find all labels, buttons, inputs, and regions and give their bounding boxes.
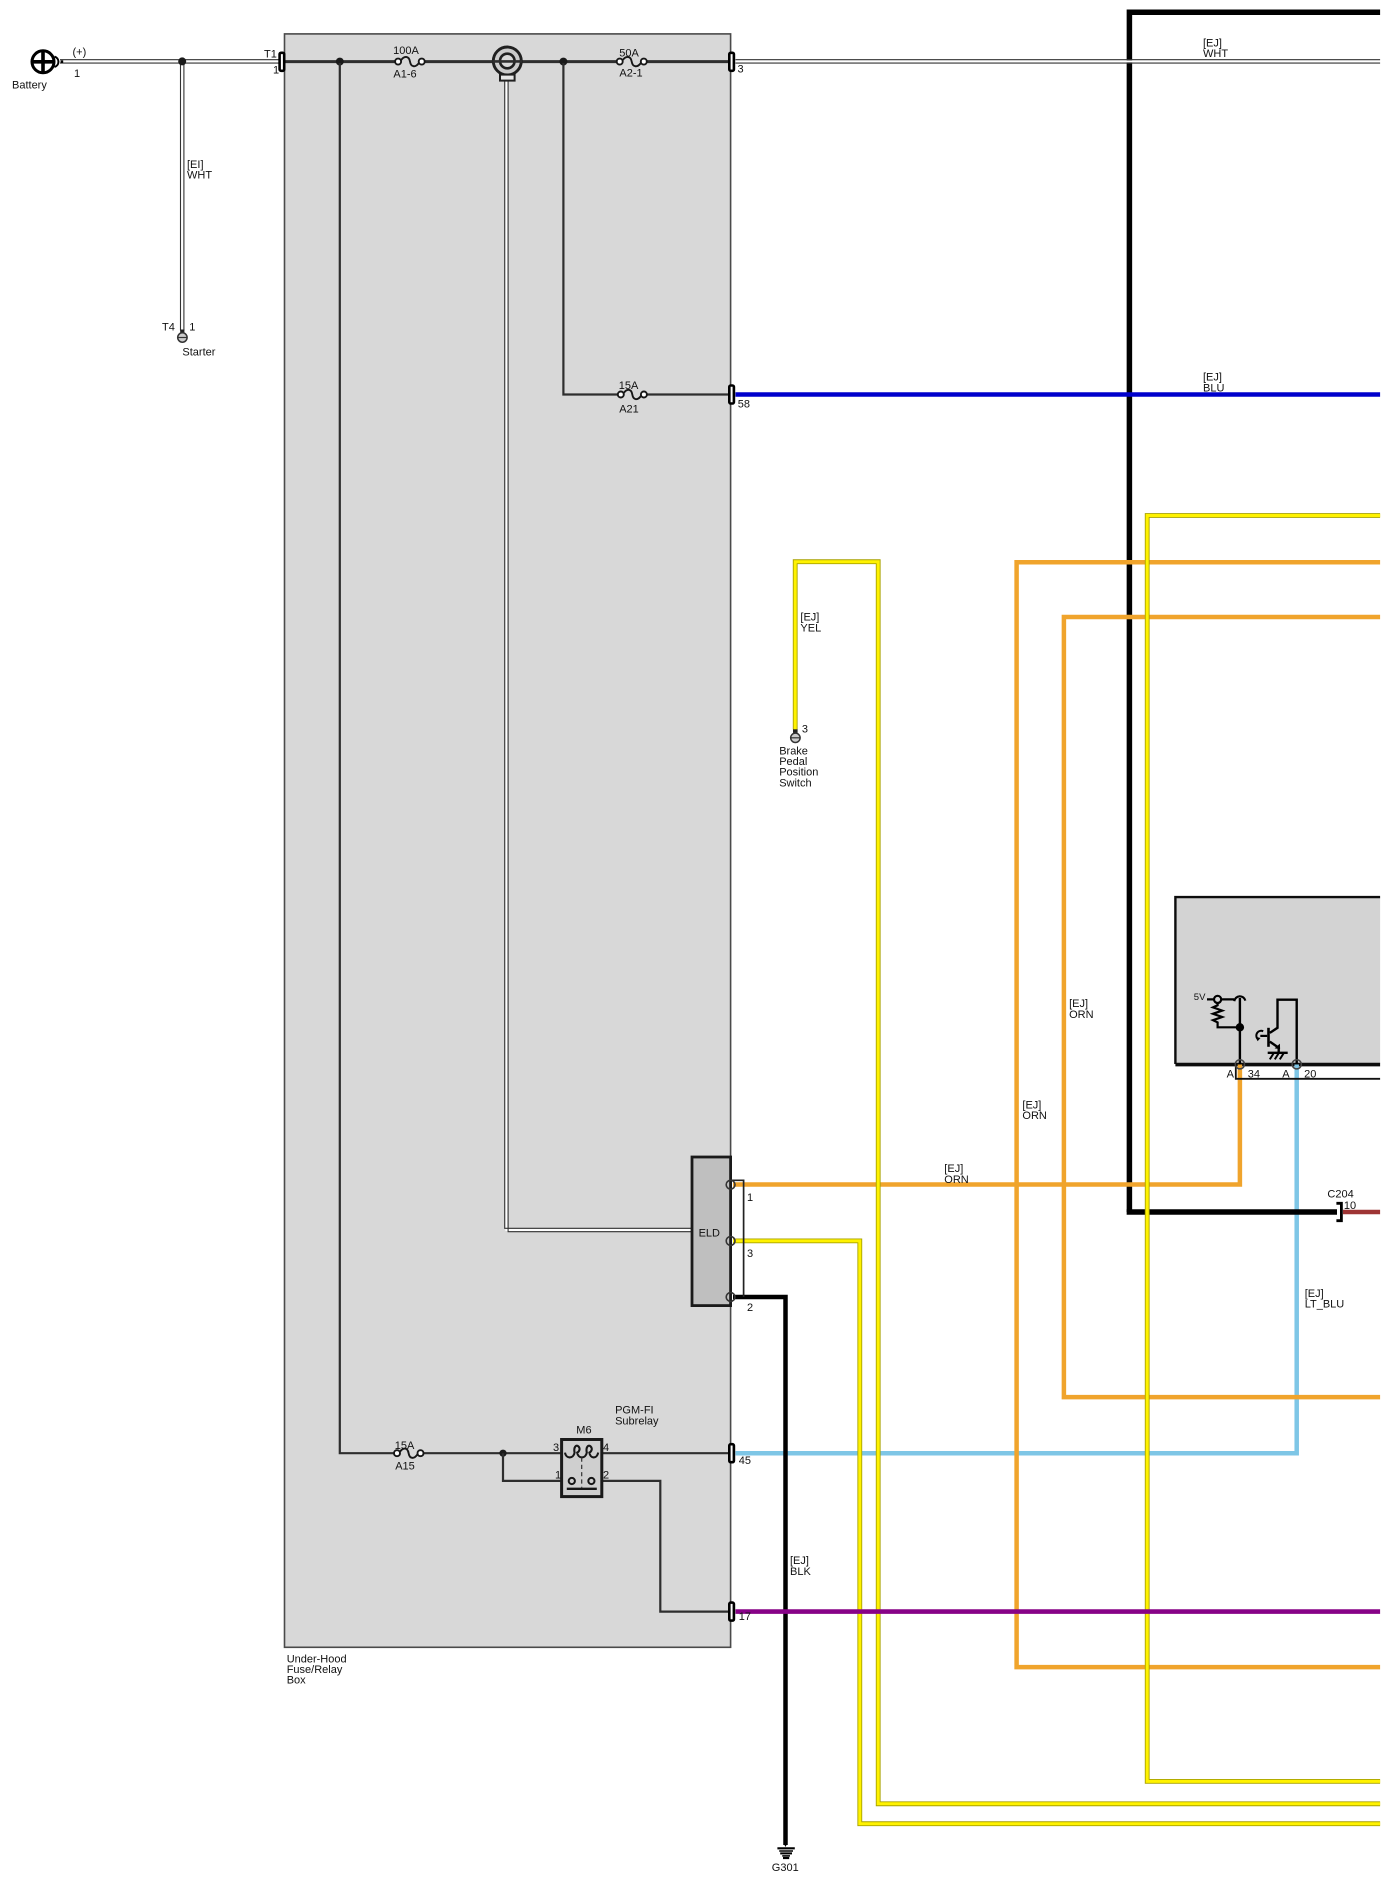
- ECM internal wire 5V node down to pin A34: [1239, 998, 1241, 1064]
- connector pin 58 (fuse box output): [729, 386, 734, 404]
- junction node relay feed: [499, 1450, 506, 1457]
- current sensor ring on battery feed: [493, 47, 523, 81]
- resistor (pull-up) inside ECM: [1213, 1003, 1240, 1027]
- svg-text:ORN: ORN: [944, 1174, 969, 1186]
- connector T1 terminal 1: [280, 53, 285, 71]
- wire purple from fuse box pin 17 to right edge: [736, 1609, 1381, 1614]
- svg-text:45: 45: [739, 1455, 751, 1467]
- junction node A1-6 feed: [336, 58, 344, 66]
- ECM 5V supply circle: [1207, 996, 1234, 1003]
- svg-text:T1: T1: [264, 49, 277, 61]
- svg-text:A21: A21: [619, 404, 639, 416]
- svg-text:Subrelay: Subrelay: [615, 1415, 659, 1427]
- svg-text:1: 1: [747, 1192, 753, 1204]
- ECM internal box bottom border: [1175, 1063, 1380, 1067]
- wire internal: relay pin 4 to fuse box pin 45: [602, 1452, 730, 1454]
- wire dark red [EJ] RED from C204 pin 10 to right edge: [1343, 1210, 1380, 1215]
- wire white [EJ] WHT fuse box pin 3 to right edge (double line): [736, 60, 1381, 63]
- wire orange [EJ] ORN second vertical run: [1064, 617, 1380, 1397]
- wire white battery to T1 (double line): [60, 60, 281, 63]
- ECM 5V hook symbol: [1234, 996, 1245, 1001]
- ELD pin 3: [726, 1237, 735, 1246]
- Under-Hood Fuse/Relay Box: [285, 34, 731, 1647]
- relay M6 PGM-FI Subrelay: [562, 1440, 602, 1497]
- brake pedal position switch terminal 3: [791, 729, 800, 742]
- fuse 50A A2-1: [617, 57, 647, 66]
- svg-text:15A: 15A: [619, 380, 639, 392]
- main bus wire inside fuse box: [283, 60, 730, 63]
- svg-text:Box: Box: [287, 1675, 306, 1687]
- wire light blue [EJ] LT_BLU from ECM pin A20 down then left to fuse box pin 45: [736, 1065, 1297, 1454]
- fuse 100A A1-6: [395, 57, 425, 66]
- svg-text:G301: G301: [772, 1862, 799, 1874]
- svg-text:WHT: WHT: [1203, 48, 1228, 60]
- junction node A2-1 feed: [559, 58, 567, 66]
- svg-text:3: 3: [553, 1442, 559, 1454]
- svg-text:ORN: ORN: [1022, 1110, 1047, 1122]
- junction node at resistor/pin A34: [1236, 1023, 1244, 1031]
- wire internal: down to 15A A15 fuse: [340, 63, 394, 1453]
- svg-text:58: 58: [738, 399, 750, 411]
- connector pin 45 (fuse box output): [729, 1444, 734, 1462]
- svg-text:15A: 15A: [395, 1440, 415, 1452]
- ground (ECM internal, hatched): [1268, 1053, 1288, 1060]
- svg-text:Battery: Battery: [12, 80, 47, 92]
- wire blue [EJ] BLU from fuse box pin 58 to right edge: [736, 392, 1381, 397]
- svg-text:3: 3: [747, 1248, 753, 1260]
- junction node battery/starter: [178, 57, 186, 65]
- wire internal: down to 15A A21 fuse: [563, 63, 618, 395]
- svg-text:1: 1: [273, 64, 279, 76]
- svg-text:T4: T4: [162, 322, 175, 334]
- svg-text:5V: 5V: [1194, 992, 1206, 1003]
- battery positive terminal symbol: [32, 51, 63, 73]
- wire yellow [EJ] YEL from ELD pin 3 right then down to bottom edge: [733, 1241, 1380, 1824]
- svg-text:1: 1: [74, 68, 80, 80]
- connector C204 pin 10: [1336, 1203, 1341, 1220]
- wire yellow [EJ] YEL from brake pedal position switch up, right, down to bottom edge: [795, 562, 1380, 1804]
- svg-text:ELD: ELD: [699, 1228, 720, 1240]
- svg-text:A: A: [1227, 1069, 1235, 1081]
- wire yellow [EJ] YEL right-side vertical run: [1147, 516, 1380, 1782]
- wire white (double line) from current sensor down to ELD: [505, 81, 692, 1232]
- svg-text:4: 4: [603, 1442, 609, 1454]
- svg-text:2: 2: [747, 1302, 753, 1314]
- svg-text:17: 17: [739, 1611, 751, 1623]
- ground G301: [777, 1843, 794, 1858]
- wire black [EJ] BLK from ELD pin 2 down to ground G301: [733, 1297, 786, 1845]
- svg-text:Switch: Switch: [779, 777, 811, 789]
- wire orange [EJ] ORN from ELD pin 1 up to ECM pin A34: [733, 1065, 1240, 1185]
- ECM pin A34 pass-through circle: [1235, 1060, 1244, 1069]
- svg-text:M6: M6: [576, 1424, 591, 1436]
- ECM bottom thick wire to connector C204: [1129, 1209, 1337, 1212]
- svg-text:C204: C204: [1327, 1189, 1353, 1201]
- ELD pin 1: [726, 1180, 735, 1189]
- wire orange [EJ] ORN vertical: ECM area down to bottom right: [1017, 562, 1381, 1667]
- svg-text:A1-6: A1-6: [393, 69, 416, 81]
- svg-text:A15: A15: [395, 1461, 415, 1473]
- svg-text:3: 3: [802, 724, 808, 736]
- ELD connector bracket: [731, 1180, 744, 1297]
- svg-text:YEL: YEL: [800, 622, 821, 634]
- wire white junction down to starter (double line): [181, 61, 184, 331]
- svg-text:1: 1: [189, 322, 195, 334]
- svg-text:1: 1: [555, 1470, 561, 1482]
- svg-text:LT_BLU: LT_BLU: [1305, 1299, 1345, 1311]
- svg-text:2: 2: [603, 1470, 609, 1482]
- ELD pin 2: [726, 1293, 735, 1302]
- svg-text:Starter: Starter: [182, 346, 215, 358]
- svg-text:3: 3: [738, 64, 744, 76]
- transistor Q (output driver): [1256, 1000, 1297, 1064]
- wire internal: A21 fuse to pin 58: [647, 393, 730, 395]
- svg-text:A2-1: A2-1: [619, 68, 642, 80]
- ECM outline thick wire: top edge and left edge: [1129, 12, 1380, 1212]
- ELD unit: [692, 1157, 731, 1306]
- svg-text:BLU: BLU: [1203, 382, 1224, 394]
- starter terminal 1: [178, 330, 187, 343]
- ECM connector strip line below internal box: [1236, 1066, 1380, 1079]
- svg-text:ORN: ORN: [1069, 1009, 1094, 1021]
- svg-text:50A: 50A: [619, 48, 639, 60]
- fuse 15A A15: [394, 1449, 424, 1458]
- svg-text:(+): (+): [73, 47, 87, 59]
- wire internal: junction down to relay pin 1: [503, 1453, 562, 1481]
- ECM internal box top border: [1175, 897, 1380, 1064]
- svg-text:BLK: BLK: [790, 1566, 811, 1578]
- svg-text:20: 20: [1304, 1069, 1316, 1081]
- svg-text:A: A: [1282, 1069, 1290, 1081]
- svg-text:WHT: WHT: [187, 170, 212, 182]
- svg-text:34: 34: [1248, 1069, 1260, 1081]
- fuse 15A A21: [618, 390, 647, 399]
- connector pin 3 (fuse box output): [729, 53, 734, 71]
- svg-text:100A: 100A: [393, 45, 419, 57]
- wire internal: relay pin 2 to fuse box pin 17: [602, 1481, 730, 1612]
- ECM pin A20 pass-through circle: [1292, 1060, 1301, 1069]
- svg-text:10: 10: [1344, 1200, 1356, 1212]
- connector pin 17 (fuse box output): [729, 1603, 734, 1621]
- ECM/PCM internal circuit box: [1175, 897, 1380, 1064]
- wire internal: A15 fuse to relay pin 3: [424, 1452, 562, 1454]
